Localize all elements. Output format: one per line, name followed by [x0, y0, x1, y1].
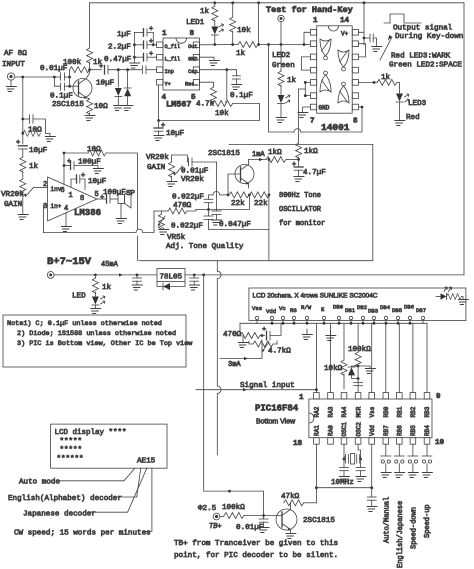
node pin6	[63, 164, 66, 167]
wire osc out to box bottom	[268, 230, 270, 261]
connector AF input jack	[7, 73, 14, 80]
pin L5	[310, 80, 316, 86]
wire pins 5-6 tie	[305, 82, 310, 95]
LCD pin drops	[257, 320, 423, 324]
node q2 collector join	[268, 158, 271, 161]
note box frame	[3, 315, 186, 367]
svg-text:10µF: 10µF	[96, 80, 115, 88]
svg-text:Output signal: Output signal	[393, 25, 453, 33]
svg-text:22k: 22k	[254, 200, 268, 208]
svg-text:Y+: Y+	[165, 81, 171, 87]
node base	[68, 85, 71, 88]
svg-text:10k: 10k	[237, 27, 251, 35]
svg-text:B+7~15V: B+7~15V	[47, 256, 92, 268]
svg-text:4: 4	[162, 94, 167, 102]
node out3	[257, 43, 260, 46]
svg-text:10µF: 10µF	[88, 178, 107, 186]
svg-text:Speed-up: Speed-up	[424, 504, 432, 538]
node input	[21, 76, 24, 79]
ground bypass	[370, 47, 381, 52]
svg-text:Note1) C; 0.1µF unless other: Note1) C; 0.1µF unless otherwise noted	[7, 320, 162, 328]
ground pwr cap	[131, 285, 142, 290]
svg-text:CW speed; 15 words per minutes: CW speed; 15 words per minutes	[14, 530, 151, 538]
svg-text:*****: *****	[60, 438, 83, 446]
wire pin8 out	[359, 106, 363, 108]
pin L4	[310, 67, 316, 73]
ground LED2	[275, 118, 286, 123]
svg-text:O_fil: O_fil	[165, 44, 181, 50]
svg-text:Inp: Inp	[165, 69, 174, 75]
ground pin4	[60, 227, 71, 232]
svg-text:LCD display ****: LCD display ****	[55, 429, 127, 437]
node rc1	[21, 118, 24, 121]
node osc collector	[297, 158, 300, 161]
svg-text:PIC16F84: PIC16F84	[255, 404, 299, 414]
capacitor pwr out	[193, 275, 195, 278]
LED backlight	[444, 287, 452, 291]
svg-text:L_fil: L_fil	[165, 56, 181, 62]
svg-text:+: +	[100, 194, 104, 202]
svg-text:1k: 1k	[29, 163, 39, 171]
node mclr1	[357, 365, 360, 368]
wire loop y132 with hop	[269, 131, 295, 133]
pin R10	[352, 80, 358, 86]
pin L2	[310, 41, 316, 47]
svg-text:DB5: DB5	[392, 307, 402, 314]
svg-text:DB4: DB4	[380, 304, 391, 311]
svg-text:Res.: Res.	[185, 81, 197, 87]
svg-text:RB1: RB1	[397, 406, 404, 417]
node cap split	[53, 76, 56, 79]
wire pin4 ground	[65, 213, 67, 226]
svg-text:0.047µF: 0.047µF	[219, 221, 251, 229]
svg-text:DB6: DB6	[404, 304, 414, 311]
pin GND	[193, 54, 199, 60]
node bus2	[133, 56, 136, 59]
ground VR5k	[157, 230, 168, 235]
wire base 800Hz	[228, 174, 241, 195]
wire cap bus	[133, 32, 135, 62]
node diode1	[117, 68, 120, 71]
switch SW2	[398, 444, 400, 456]
node base800	[227, 194, 230, 197]
svg-text:2SC1815: 2SC1815	[208, 150, 240, 158]
svg-text:GND: GND	[188, 56, 197, 62]
svg-text:VR20k: VR20k	[146, 154, 169, 162]
svg-text:2SC1815: 2SC1815	[52, 101, 84, 109]
node 1k led	[94, 274, 97, 277]
svg-text:4.7kΩ: 4.7kΩ	[268, 348, 291, 356]
op-amp U1 LM567 body	[163, 38, 200, 90]
svg-text:point, for PIC decoder to be s: point, for PIC decoder to be silent.	[174, 552, 338, 560]
svg-text:8: 8	[353, 118, 358, 126]
svg-text:8: 8	[190, 30, 195, 38]
svg-text:LED: LED	[72, 293, 86, 301]
svg-text:10µF: 10µF	[29, 147, 48, 155]
wire lm386 to box	[136, 236, 138, 261]
pin labels PIC bottom row	[314, 422, 432, 437]
LCD display box	[51, 424, 167, 468]
pin L1	[310, 30, 316, 36]
pin Cap	[193, 67, 199, 73]
node tb junction	[228, 490, 231, 493]
svg-text:VR20k: VR20k	[181, 176, 204, 184]
wire cap pin to pot wiper	[226, 70, 228, 100]
ground 100uF	[92, 169, 103, 174]
wire 5v node to base	[230, 491, 264, 515]
pin L3	[310, 54, 316, 60]
node ra1	[315, 486, 318, 489]
wire 78L05 out	[185, 274, 464, 276]
node pin8	[361, 106, 364, 109]
svg-text:GAIN: GAIN	[147, 164, 165, 172]
capacitor shunt	[23, 118, 30, 120]
wire base link	[69, 77, 71, 86]
wire 22k line	[216, 162, 218, 211]
svg-text:English(Alphabet) decoder: English(Alphabet) decoder	[8, 495, 122, 503]
crystal X1	[345, 455, 347, 464]
node xtal1	[343, 458, 346, 461]
node cap pin	[225, 68, 228, 71]
pin L6	[310, 93, 316, 99]
diode mclr	[352, 365, 359, 367]
node rail-LED1	[213, 1, 216, 4]
node rc2	[21, 132, 24, 135]
wire out to 14001 pins 1,2	[304, 32, 310, 44]
svg-text:10kΩ: 10kΩ	[324, 365, 343, 373]
node out4	[267, 43, 270, 46]
svg-text:DB3: DB3	[368, 308, 378, 315]
svg-text:LED3: LED3	[408, 100, 427, 108]
wire pin7 ground	[303, 107, 311, 112]
svg-text:in+: in+	[51, 203, 62, 210]
svg-text:V+: V+	[341, 31, 349, 38]
wire x23 chain	[22, 133, 24, 144]
svg-text:2.2µF: 2.2µF	[108, 44, 131, 52]
svg-text:1k: 1k	[287, 77, 297, 85]
svg-text:2) Diode; 1S1588 unless otherw: 2) Diode; 1S1588 unless otherwise noted	[17, 330, 176, 338]
capacitor mclr	[354, 382, 363, 384]
svg-text:Adj. Tone Quality: Adj. Tone Quality	[166, 243, 244, 251]
pin Inp	[157, 67, 163, 73]
pin Out	[193, 42, 199, 48]
arrow to waveform	[380, 37, 392, 60]
svg-text:45mA: 45mA	[101, 261, 119, 269]
wire tie to osc	[299, 88, 306, 90]
svg-text:TB+ from Tranceiver be given t: TB+ from Tranceiver be given to this	[174, 540, 338, 548]
node rail-10k	[231, 1, 234, 4]
ground vo	[242, 336, 244, 343]
node collector	[88, 68, 91, 71]
svg-text:Signal input: Signal input	[240, 382, 295, 390]
ground GND pin	[200, 57, 215, 60]
ground 4.7uF	[293, 177, 304, 182]
svg-text:3) PIC is Bottom view, Other I: 3) PIC is Bottom view, Other IC be Top v…	[17, 340, 193, 348]
svg-text:100k: 100k	[63, 59, 82, 67]
wire Out line	[200, 44, 239, 46]
capacitor pwr in	[136, 275, 138, 278]
wire gate2 input ties right	[359, 44, 366, 57]
svg-text:RB7: RB7	[383, 425, 390, 436]
svg-text:1µF: 1µF	[117, 31, 131, 39]
LCD box	[249, 288, 466, 321]
svg-text:RB5: RB5	[410, 425, 417, 436]
svg-text:Cap: Cap	[188, 69, 197, 75]
svg-text:10Ω: 10Ω	[94, 103, 108, 111]
node out1	[213, 43, 216, 46]
svg-text:9: 9	[436, 393, 441, 401]
node base top	[68, 76, 71, 79]
svg-text:RB6: RB6	[397, 425, 404, 436]
pin O_fil	[157, 42, 163, 48]
svg-text:Vss: Vss	[369, 406, 376, 417]
svg-text:10: 10	[435, 439, 445, 447]
svg-text:6: 6	[61, 187, 65, 195]
svg-text:TB+: TB+	[209, 523, 222, 531]
svg-text:5: 5	[95, 191, 99, 199]
wire osc box top rail	[229, 144, 373, 146]
svg-text:for monitor: for monitor	[279, 220, 325, 228]
pin R12	[352, 54, 358, 60]
capacitor xtal1	[340, 467, 349, 469]
wire 22k mid down	[209, 195, 250, 210]
node out2	[231, 43, 234, 46]
LED3	[396, 94, 403, 102]
ground cap bus	[128, 63, 139, 68]
pin L_fil	[157, 54, 163, 60]
svg-text:7: 7	[310, 118, 315, 126]
ground VR20k	[17, 215, 28, 220]
svg-text:MCR: MCR	[355, 406, 362, 417]
pin R11	[352, 67, 358, 73]
switch labels rotated	[383, 497, 432, 568]
svg-text:Vo: Vo	[279, 305, 286, 312]
svg-text:8: 8	[80, 195, 84, 203]
pin Y+	[157, 79, 163, 85]
wire jack to base caps	[15, 76, 55, 78]
capacitor input to Inp pin	[142, 66, 144, 74]
svg-text:22k: 22k	[231, 200, 245, 208]
node vplus	[363, 37, 366, 40]
svg-text:+: +	[262, 326, 266, 334]
node rail386	[63, 152, 66, 155]
node vdd	[370, 486, 373, 489]
svg-text:Green: Green	[272, 62, 295, 70]
IC U2 14001 body	[317, 26, 353, 113]
svg-text:DB1: DB1	[345, 307, 356, 314]
svg-text:100kΩ: 100kΩ	[222, 504, 245, 512]
svg-text:18: 18	[293, 440, 303, 448]
svg-text:14: 14	[340, 17, 350, 25]
diode D2 clamp	[127, 70, 129, 88]
svg-text:During Key-down: During Key-down	[395, 33, 463, 41]
svg-text:1mA: 1mA	[252, 151, 265, 159]
svg-text:RB0: RB0	[383, 406, 390, 417]
svg-text:VR5k: VR5k	[167, 234, 186, 242]
wire RA1 down	[315, 444, 317, 503]
wire osc feed x298.6	[298, 89, 300, 143]
wire V+ right side drop	[463, 3, 465, 275]
svg-text:RA4: RA4	[341, 406, 348, 417]
svg-text:Test for Hand-Key: Test for Hand-Key	[266, 5, 353, 15]
svg-text:Bottom View: Bottom View	[256, 419, 296, 426]
svg-text:47kΩ: 47kΩ	[281, 493, 300, 501]
ground 10uF	[153, 136, 164, 141]
wire pin3 feedback	[44, 206, 48, 233]
wire collector 800Hz	[249, 159, 267, 161]
wire base q3	[264, 515, 282, 517]
svg-text:4: 4	[64, 205, 68, 213]
node out5	[280, 43, 283, 46]
ground emitter	[89, 113, 91, 115]
node 22k right	[268, 194, 271, 197]
svg-text:Auto/Manual: Auto/Manual	[383, 497, 391, 543]
svg-text:800Hz Tone: 800Hz Tone	[279, 192, 321, 200]
connector power jack	[47, 272, 54, 279]
node p6	[304, 94, 307, 97]
svg-text:LM567: LM567	[166, 100, 192, 110]
wire pin6 supply	[63, 153, 65, 185]
svg-text:2SC1815: 2SC1815	[303, 517, 335, 525]
capacitor xtal2	[356, 467, 365, 469]
svg-text:OSC1: OSC1	[341, 422, 348, 437]
capacitor 14001 bypass	[364, 37, 370, 39]
svg-text:******: ******	[57, 456, 84, 464]
svg-text:GND: GND	[319, 105, 330, 112]
node y120	[157, 119, 160, 122]
svg-text:1: 1	[162, 30, 167, 38]
IC U4 PIC16F84 body	[309, 399, 432, 438]
gate G3 NOR	[320, 75, 331, 92]
svg-text:10MHz: 10MHz	[331, 479, 354, 487]
PIC feed drops	[316, 323, 427, 392]
wire bottom rail lm386	[44, 232, 137, 234]
svg-text:10µF: 10µF	[166, 130, 185, 138]
svg-text:Red LED3:WARK: Red LED3:WARK	[391, 53, 451, 61]
svg-text:4.7k: 4.7k	[196, 101, 215, 109]
wire y=120.5	[159, 104, 260, 121]
node diode2	[126, 68, 129, 71]
svg-text:1kΩ: 1kΩ	[304, 148, 318, 156]
svg-text:0.022µF: 0.022µF	[171, 223, 203, 231]
svg-text:78L05: 78L05	[160, 274, 183, 282]
ground VR20k2	[166, 182, 177, 187]
node cap col top	[207, 208, 210, 211]
ground speaker	[115, 219, 126, 224]
pin R9	[352, 93, 358, 99]
bus nodes	[271, 322, 412, 325]
svg-text:OSC2: OSC2	[355, 422, 362, 437]
node rail-x258	[257, 1, 260, 4]
svg-text:470Ω: 470Ω	[223, 331, 242, 339]
op-amp U3 LM386 triangle	[48, 177, 97, 221]
svg-text:Vdd: Vdd	[266, 308, 276, 315]
svg-text:1k: 1k	[102, 284, 112, 292]
svg-text:AF 8Ω: AF 8Ω	[4, 50, 27, 58]
pins PIC top	[314, 393, 430, 400]
wire power line	[54, 274, 157, 276]
svg-text:R/W: R/W	[301, 304, 312, 311]
wire 22k right up to collector	[268, 160, 270, 195]
svg-text:RB2: RB2	[410, 406, 417, 417]
svg-text:LCD 20chara. X 4rows SUNLIKE: LCD 20chara. X 4rows SUNLIKE SC2004C	[253, 293, 378, 300]
connector test point	[278, 15, 284, 21]
wire V+ top rail	[90, 2, 464, 4]
svg-text:0.01µF: 0.01µF	[181, 168, 209, 176]
svg-text:1kΩ: 1kΩ	[268, 149, 282, 157]
pin R8	[352, 104, 358, 110]
svg-text:DB2: DB2	[357, 304, 367, 311]
wire osc1	[343, 444, 345, 457]
ground diode	[358, 366, 370, 368]
svg-text:0.022µF: 0.022µF	[172, 194, 204, 202]
svg-text:4.7µF: 4.7µF	[303, 169, 326, 177]
svg-text:0.1µF: 0.1µF	[50, 93, 73, 101]
ground pin7	[297, 113, 308, 118]
svg-text:0.1µF: 0.1µF	[230, 92, 253, 100]
wire Y+ to timing	[158, 85, 160, 121]
wire Vdd down	[371, 444, 373, 497]
ground 0.047	[210, 220, 221, 225]
svg-text:DB7: DB7	[416, 307, 426, 314]
svg-text:1k: 1k	[236, 50, 246, 58]
svg-text:+: +	[292, 161, 296, 169]
svg-text:Out: Out	[188, 44, 197, 50]
wire ra1-vdd link	[316, 487, 371, 489]
node p5	[304, 81, 307, 84]
node mclr2	[357, 377, 360, 380]
wire osc2	[358, 444, 361, 457]
node out cap	[193, 274, 196, 277]
pin labels PIC top row	[314, 406, 432, 417]
svg-text:RA0: RA0	[328, 425, 335, 436]
svg-text:2: 2	[43, 181, 47, 189]
svg-text:INPUT: INPUT	[2, 61, 25, 69]
pins PIC bottom	[314, 438, 430, 445]
wire x268 drop	[268, 45, 270, 133]
svg-text:1k: 1k	[200, 8, 210, 16]
svg-text:Auto mode: Auto mode	[19, 479, 60, 487]
svg-text:RB3: RB3	[424, 406, 431, 417]
svg-text:1: 1	[299, 394, 304, 402]
node vo	[261, 334, 264, 337]
wire 5v long drop	[204, 275, 230, 491]
ground jack	[10, 80, 12, 86]
svg-text:LED1: LED1	[186, 19, 205, 27]
svg-text:Green LED2:SPACE: Green LED2:SPACE	[389, 62, 462, 70]
svg-text:Speed-down: Speed-down	[410, 507, 418, 549]
gate G4 NOR	[338, 86, 349, 103]
svg-text:DB0: DB0	[333, 304, 344, 311]
svg-text:AE15: AE15	[137, 458, 156, 466]
gate G2 NOR	[338, 50, 349, 67]
wire osc box right/bottom	[139, 145, 373, 261]
wire bus under LCD	[240, 322, 427, 324]
svg-text:Vss: Vss	[252, 305, 262, 312]
svg-text:RS: RS	[290, 307, 297, 314]
svg-text:0.01µF: 0.01µF	[236, 524, 264, 532]
node bus1	[133, 43, 136, 46]
wire pins 3-4 tie	[301, 57, 310, 70]
wire V+ pin to rail	[359, 3, 365, 33]
node base q3	[262, 514, 265, 517]
svg-text:0.47µF: 0.47µF	[104, 56, 132, 64]
capacitor vdd	[367, 496, 376, 498]
waveform key-down pulse	[384, 14, 421, 23]
pin Res	[193, 79, 199, 85]
svg-text:RA2: RA2	[314, 406, 321, 417]
svg-text:RB4: RB4	[424, 425, 431, 436]
